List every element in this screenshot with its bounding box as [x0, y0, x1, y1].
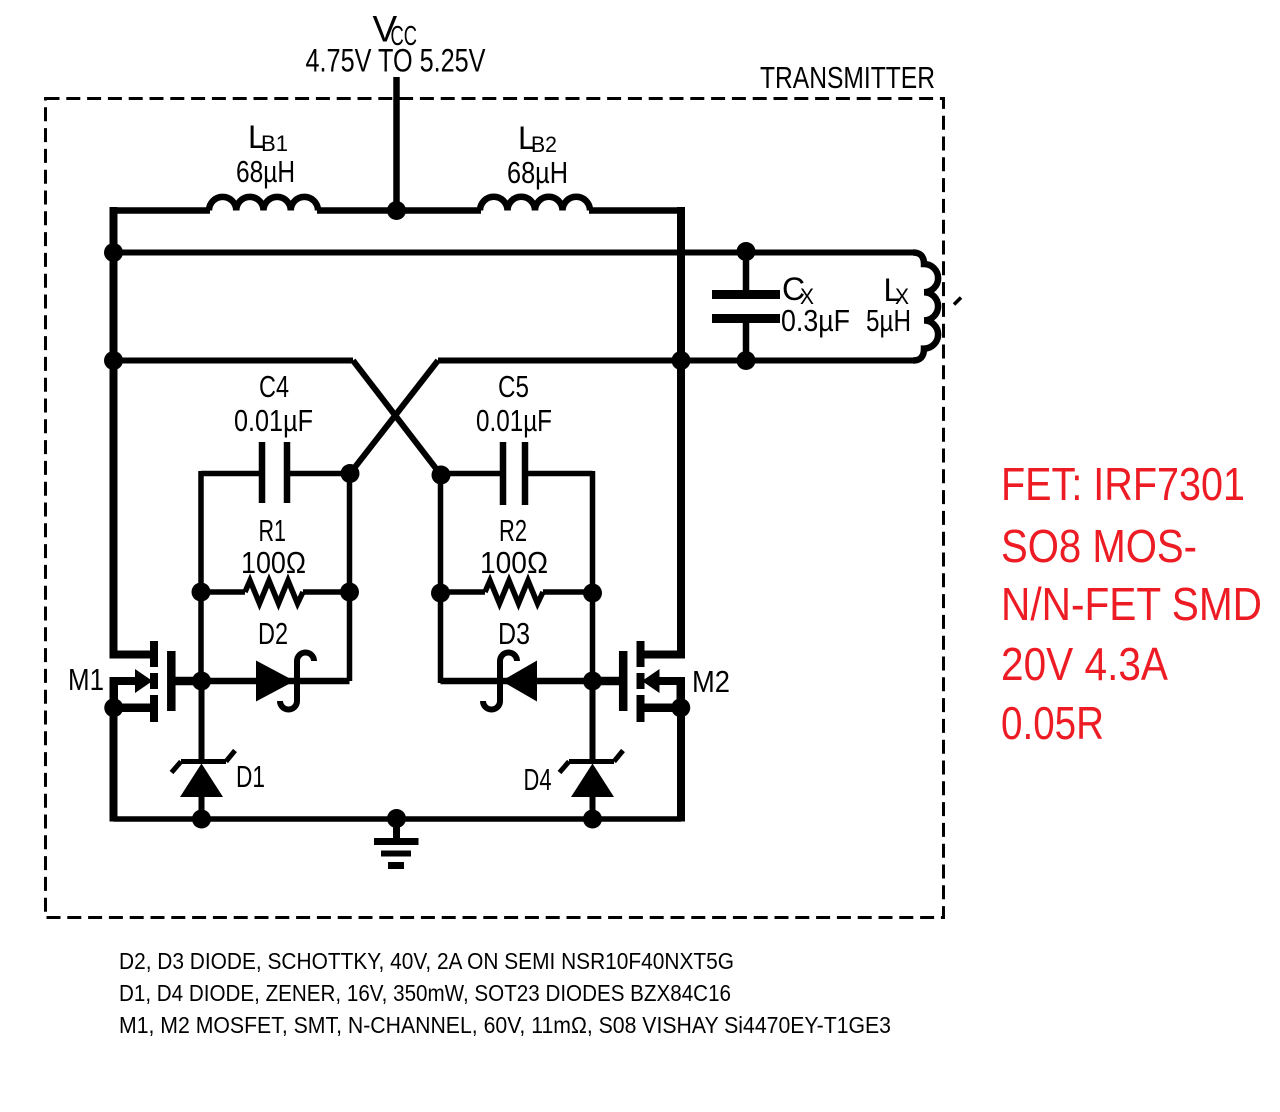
svg-text:D1: D1 — [236, 759, 265, 794]
svg-text:0.01µF: 0.01µF — [476, 403, 552, 438]
svg-text:R1: R1 — [259, 513, 287, 548]
svg-text:D1, D4 DIODE, ZENER, 16V, 350m: D1, D4 DIODE, ZENER, 16V, 350mW, SOT23 D… — [119, 980, 731, 1006]
svg-text:68µH: 68µH — [507, 155, 568, 190]
svg-text:D4: D4 — [524, 762, 552, 797]
svg-text:D2, D3 DIODE, SCHOTTKY, 40V, 2: D2, D3 DIODE, SCHOTTKY, 40V, 2A ON SEMI … — [119, 948, 734, 974]
svg-text:0.3µF: 0.3µF — [781, 303, 850, 338]
svg-text:4.75V TO 5.25V: 4.75V TO 5.25V — [306, 43, 487, 79]
svg-text:R2: R2 — [499, 513, 527, 548]
svg-text:0.01µF: 0.01µF — [234, 403, 313, 438]
svg-text:C4: C4 — [259, 369, 289, 404]
svg-text:20V 4.3A: 20V 4.3A — [1001, 638, 1168, 690]
svg-text:5µH: 5µH — [866, 303, 911, 338]
svg-text:68µH: 68µH — [236, 154, 295, 189]
svg-text:M1: M1 — [68, 662, 104, 697]
svg-text:B1: B1 — [261, 131, 288, 156]
svg-text:0.05R: 0.05R — [1001, 697, 1104, 749]
svg-text:N/N-FET SMD: N/N-FET SMD — [1001, 578, 1262, 630]
svg-text:TRANSMITTER: TRANSMITTER — [760, 60, 935, 95]
svg-text:D2: D2 — [258, 616, 288, 651]
svg-text:100Ω: 100Ω — [480, 545, 548, 580]
svg-text:D3: D3 — [498, 616, 530, 651]
svg-text:B2: B2 — [531, 132, 557, 157]
svg-text:M1, M2 MOSFET, SMT, N-CHANNEL,: M1, M2 MOSFET, SMT, N-CHANNEL, 60V, 11mΩ… — [119, 1012, 891, 1038]
svg-text:100Ω: 100Ω — [241, 545, 306, 580]
svg-text:FET: IRF7301: FET: IRF7301 — [1001, 458, 1245, 510]
svg-text:SO8 MOS-: SO8 MOS- — [1001, 520, 1197, 572]
svg-text:C5: C5 — [498, 369, 529, 404]
svg-text:M2: M2 — [692, 664, 730, 699]
